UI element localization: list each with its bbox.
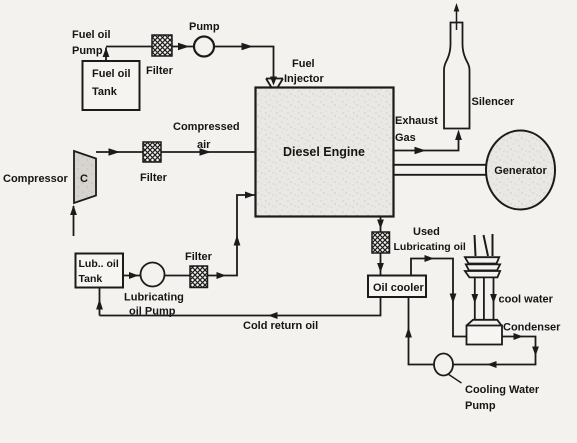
filter F2 (air filter) bbox=[143, 142, 161, 162]
wire: condenser to cooling water pump bbox=[453, 333, 539, 368]
wire: engine sump to lube filter bbox=[377, 217, 384, 233]
pump P1 (fuel oil pump) bbox=[194, 37, 214, 57]
wire: pump P1 to fuel injector bbox=[214, 43, 277, 86]
used lubricating oil label bbox=[394, 226, 466, 253]
svg-text:Exhaust: Exhaust bbox=[395, 115, 438, 127]
svg-text:oil Pump: oil Pump bbox=[129, 306, 176, 318]
svg-text:Fuel: Fuel bbox=[292, 58, 315, 70]
svg-text:Injector: Injector bbox=[284, 73, 324, 85]
svg-text:Filter: Filter bbox=[185, 251, 213, 263]
filter F2 label bbox=[140, 172, 168, 184]
svg-text:Gas: Gas bbox=[395, 132, 416, 144]
svg-text:C: C bbox=[80, 173, 88, 185]
wire: cold return into lub oil tank bbox=[96, 288, 103, 316]
filter F4 (lube oil filter) bbox=[190, 266, 208, 288]
cooling tower spray pipes bbox=[475, 234, 493, 256]
oil cooler bbox=[368, 276, 426, 298]
fuel oil tank bbox=[83, 61, 140, 110]
compressor C bbox=[74, 151, 96, 203]
cold return oil label bbox=[243, 320, 318, 332]
svg-text:Pump: Pump bbox=[465, 400, 496, 412]
wire: filter F4 to engine oil inlet bbox=[208, 192, 256, 280]
wire: lub oil tank to pump P2 bbox=[123, 272, 140, 279]
svg-text:Silencer: Silencer bbox=[472, 96, 516, 108]
svg-text:Condenser: Condenser bbox=[503, 322, 561, 334]
svg-text:Tank: Tank bbox=[79, 273, 103, 285]
wire: fuel oil tank outlet to fuel line bbox=[103, 48, 110, 62]
svg-text:Oil cooler: Oil cooler bbox=[373, 282, 424, 294]
wire: pump P2 to filter F4 bbox=[165, 275, 191, 277]
svg-text:Cooling Water: Cooling Water bbox=[465, 384, 540, 396]
filter F3 (used lubricating oil filter) bbox=[372, 232, 390, 253]
svg-text:Lub.. oil: Lub.. oil bbox=[79, 258, 119, 270]
filter F4 label bbox=[185, 251, 213, 263]
svg-text:Tank: Tank bbox=[92, 86, 118, 98]
exhaust gas label bbox=[395, 115, 438, 144]
pump P3 (cooling water pump) bbox=[434, 354, 453, 376]
filter F1 label bbox=[146, 65, 174, 77]
wire: filter F1 to pump P1 bbox=[171, 43, 194, 50]
svg-text:Pump: Pump bbox=[72, 45, 103, 57]
lubricating oil pump label bbox=[124, 292, 184, 318]
svg-text:Diesel Engine: Diesel Engine bbox=[283, 145, 365, 159]
svg-text:cool water: cool water bbox=[499, 294, 554, 306]
svg-text:Lubricating oil: Lubricating oil bbox=[394, 241, 466, 253]
cooling tower tray 2 bbox=[466, 264, 500, 270]
cool water label bbox=[499, 294, 554, 306]
svg-text:Pump: Pump bbox=[189, 21, 220, 33]
wire: exhaust line engine to silencer bbox=[394, 130, 462, 155]
wire: air intake into compressor bbox=[70, 205, 77, 236]
cooling tower tray 3 bbox=[465, 271, 500, 277]
fuel injector bbox=[266, 79, 283, 88]
wire: oil cooler outlet to cold return line bbox=[100, 297, 381, 319]
svg-text:Used: Used bbox=[413, 226, 440, 238]
fuel oil pump label bbox=[72, 29, 111, 57]
lub oil tank bbox=[76, 254, 124, 288]
generator shaft bbox=[394, 165, 488, 175]
generator G bbox=[486, 131, 555, 210]
svg-text:Generator: Generator bbox=[494, 165, 547, 177]
silencer label bbox=[472, 96, 516, 108]
svg-text:Lubricating: Lubricating bbox=[124, 292, 184, 304]
svg-text:air: air bbox=[197, 139, 211, 151]
condenser bbox=[467, 320, 503, 345]
wire: oil cooler water outlet to condenser bbox=[411, 255, 467, 337]
svg-text:Cold return oil: Cold return oil bbox=[243, 320, 318, 332]
wire: compressor to engine (compressed air line) bbox=[96, 148, 256, 155]
compressed air label bbox=[173, 121, 240, 151]
silencer bbox=[444, 3, 470, 129]
wire: filter F3 to oil cooler bbox=[377, 253, 384, 275]
pump P1 label bbox=[189, 21, 220, 33]
condenser label bbox=[503, 322, 561, 334]
pump P2 (lubricating oil pump) bbox=[141, 263, 165, 287]
svg-text:Fuel oil: Fuel oil bbox=[92, 68, 131, 80]
svg-text:Compressed: Compressed bbox=[173, 121, 240, 133]
wire: fuel line tank to filter bbox=[106, 46, 152, 48]
fuel injector label bbox=[284, 58, 324, 85]
cooling tower downcomers bbox=[471, 277, 497, 320]
diesel engine bbox=[256, 88, 394, 217]
svg-text:Filter: Filter bbox=[140, 172, 168, 184]
svg-text:Fuel oil: Fuel oil bbox=[72, 29, 111, 41]
svg-text:Compressor: Compressor bbox=[3, 173, 69, 185]
svg-text:Filter: Filter bbox=[146, 65, 174, 77]
filter F1 (fuel oil filter) bbox=[152, 35, 172, 56]
cooling tower tray 1 bbox=[465, 257, 499, 263]
wire: pump P3 to oil cooler water inlet bbox=[405, 297, 434, 365]
cooling water pump label bbox=[448, 374, 540, 412]
compressor label bbox=[3, 173, 69, 185]
